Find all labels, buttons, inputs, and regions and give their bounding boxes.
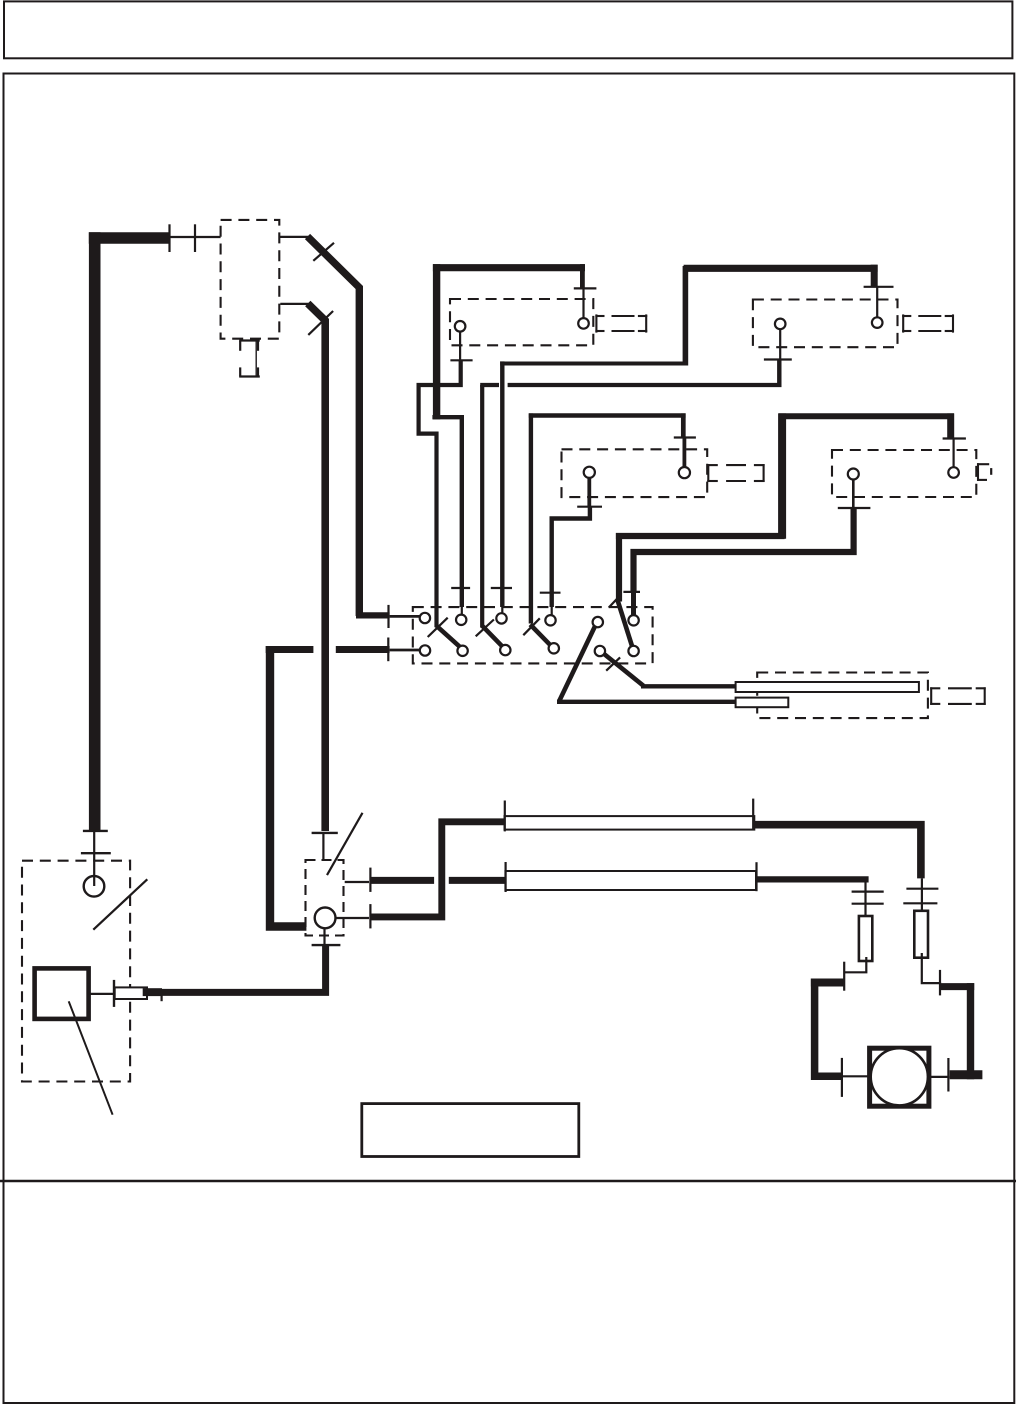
wire to terminal c1: [356, 612, 390, 618]
taillight 2 left bulb: [848, 469, 859, 480]
taillight 2 edge connector: [977, 463, 991, 481]
wire return zigzag: [419, 360, 461, 627]
blade slash d5: [606, 657, 620, 670]
terminal d3: [500, 645, 510, 655]
headlight 1 connector: [595, 314, 647, 332]
headlight 2 connector: [902, 314, 954, 332]
battery dashed box: [22, 861, 130, 1082]
fuse 1 body: [859, 916, 872, 961]
fuse link body: [115, 987, 147, 999]
tick taillight1 left bulb: [577, 506, 602, 508]
switch slash 2: [308, 311, 333, 335]
terminal c5: [593, 617, 603, 627]
wire battery positive bar: [89, 232, 169, 244]
connector ticks fuse 1: [852, 890, 884, 892]
wire taillight 2 return: [852, 480, 855, 509]
tick motor left: [841, 1058, 843, 1097]
tick motor right: [947, 1058, 949, 1092]
switch blade 2: [483, 626, 503, 646]
key switch slash: [327, 813, 363, 875]
wire light switch output 1: [279, 236, 309, 238]
wire fuse 1 bottom: [845, 957, 866, 972]
terminal d4: [549, 643, 559, 653]
header title box: [4, 1, 1012, 58]
terminal c1: [420, 613, 430, 623]
headlight 2 left bulb: [775, 319, 786, 330]
wire battery main vertical: [89, 232, 101, 831]
key switch wire tick: [312, 832, 338, 834]
wire light switch output 2: [280, 303, 308, 305]
wire headlight 2 feed riser c3: [501, 606, 503, 613]
headlight 2 dashed box: [753, 300, 898, 348]
wire return to switch (hops over c3 riser): [480, 383, 499, 387]
tick headlight1 right bulb: [574, 287, 597, 289]
flasher connector: [930, 687, 986, 705]
tick headlight2 right bulb: [864, 286, 894, 288]
terminal d2: [457, 646, 467, 656]
tick harness lower right: [755, 862, 757, 891]
flasher dashed box: [757, 673, 928, 719]
blade slash 3: [523, 618, 540, 635]
connector ticks fuse 2: [906, 888, 938, 890]
tick fuse 2 out: [939, 970, 941, 996]
tick harness lower left: [505, 862, 507, 892]
wire headlight feed riser: [461, 606, 463, 615]
battery block square: [35, 968, 89, 1019]
turn signal line c5 to apex: [559, 625, 595, 701]
tick headlight2 left bulb: [764, 358, 792, 360]
wire d1 down to key switch: [270, 646, 306, 927]
battery wire into box: [93, 831, 95, 886]
tick c1: [387, 605, 389, 628]
taillight 1 connector: [707, 464, 764, 482]
headlight 1 right bulb: [578, 318, 589, 329]
battery terminal circle: [84, 876, 105, 897]
wire headlight 1 top feed: [433, 264, 585, 271]
connector below light switch: [239, 341, 260, 377]
terminal c3: [496, 613, 506, 623]
tick taillight2 left bulb: [838, 507, 871, 509]
tick d1: [387, 638, 389, 662]
switch blade 1: [437, 626, 461, 647]
fuse tick 2: [194, 224, 196, 252]
tick harness upper left: [504, 801, 506, 832]
resistor harness lower: [505, 871, 756, 890]
wire blade to key switch: [308, 304, 325, 832]
tick battery top: [83, 830, 108, 832]
wire key switch to accelerator upper: [345, 881, 369, 883]
wire key switch bottom: [323, 928, 325, 945]
key switch dashed box: [306, 860, 344, 936]
wire key switch to accelerator lower: [335, 917, 369, 919]
wire to motor right: [941, 983, 975, 990]
battery slash: [93, 879, 147, 929]
wire fuse 2 top: [921, 878, 923, 911]
headlight 2 right bulb: [872, 317, 883, 328]
taillight 1 left bulb: [584, 467, 595, 478]
tick above c6: [623, 591, 640, 593]
terminal c6: [628, 615, 638, 625]
tick fuse 1 out: [843, 962, 845, 991]
terminal c4: [545, 615, 555, 625]
motor circle: [871, 1048, 928, 1105]
fuse link solid end: [143, 988, 162, 996]
tick fuse link left: [113, 980, 115, 1007]
tick fuse link right: [161, 990, 163, 1002]
flasher terminal blade upper: [736, 682, 919, 692]
wire fuse 2 bottom: [922, 953, 941, 983]
wire taillight 2 feed from switch: [616, 533, 622, 602]
wire battery to fuse link: [89, 993, 114, 995]
tick headlight1 left bulb: [450, 359, 472, 361]
wire to terminal d1 (hops key wire): [266, 646, 314, 653]
terminal d6: [628, 646, 638, 656]
tick above c4: [540, 592, 561, 594]
lamp switch cluster dashed box: [413, 607, 653, 663]
switch slash 1: [313, 243, 334, 261]
headlight 1 dashed box: [450, 299, 593, 345]
wire to motor left: [811, 979, 845, 987]
tick taillight1 right bulb: [674, 436, 696, 438]
battery pointer line: [69, 1001, 113, 1114]
fuse tick 1: [168, 224, 170, 252]
taillight 1 dashed box: [562, 449, 708, 497]
tick taillight2 right bulb: [943, 437, 966, 439]
wire headlight feed jog: [432, 415, 464, 419]
key switch contact circle: [315, 908, 336, 929]
taillight 2 right bulb: [948, 467, 959, 478]
tick battery connector: [81, 852, 111, 854]
blade slash 1: [428, 618, 448, 637]
terminal d5: [595, 646, 605, 656]
tick harness upper right: [752, 799, 754, 830]
tick below key switch: [312, 944, 341, 946]
wire blade to headlight circuit: [308, 237, 360, 617]
blade slash d6: [609, 595, 621, 608]
wire into light switch: [169, 236, 221, 238]
taillight 2 dashed box: [832, 450, 976, 497]
tick above c3: [491, 587, 512, 589]
motor housing square: [870, 1048, 929, 1106]
terminal c2: [456, 615, 466, 625]
switch blade to d6: [618, 600, 633, 646]
wire taillight 1 feed riser: [529, 413, 533, 623]
wire taillight 1 return: [587, 478, 591, 507]
resistor harness upper: [505, 816, 755, 830]
wire harness lower to fuse 1: [756, 876, 869, 882]
wire headlight 1 return: [459, 332, 461, 361]
light switch dashed box: [221, 220, 280, 339]
wire headlight 2 feed run: [500, 362, 686, 366]
switch blade 3: [530, 625, 550, 646]
flasher terminal blade lower: [736, 698, 789, 708]
wire harness upper to fuse 2: [754, 825, 921, 879]
wire apex to flasher lower: [557, 700, 737, 704]
divider line: [0, 1180, 1016, 1182]
blade d5 to flasher: [604, 654, 644, 686]
tick above c2: [451, 587, 470, 589]
wire to bulb: [582, 288, 584, 318]
fuse 2 body: [914, 911, 928, 958]
blade slash 2: [476, 620, 494, 637]
taillight 1 right bulb: [679, 467, 690, 478]
wire blade to flasher upper: [641, 684, 737, 688]
legend label box: [362, 1104, 579, 1157]
terminal d1: [420, 645, 430, 655]
headlight 1 left bulb: [455, 321, 466, 332]
wire headlight 2 return: [779, 329, 781, 359]
